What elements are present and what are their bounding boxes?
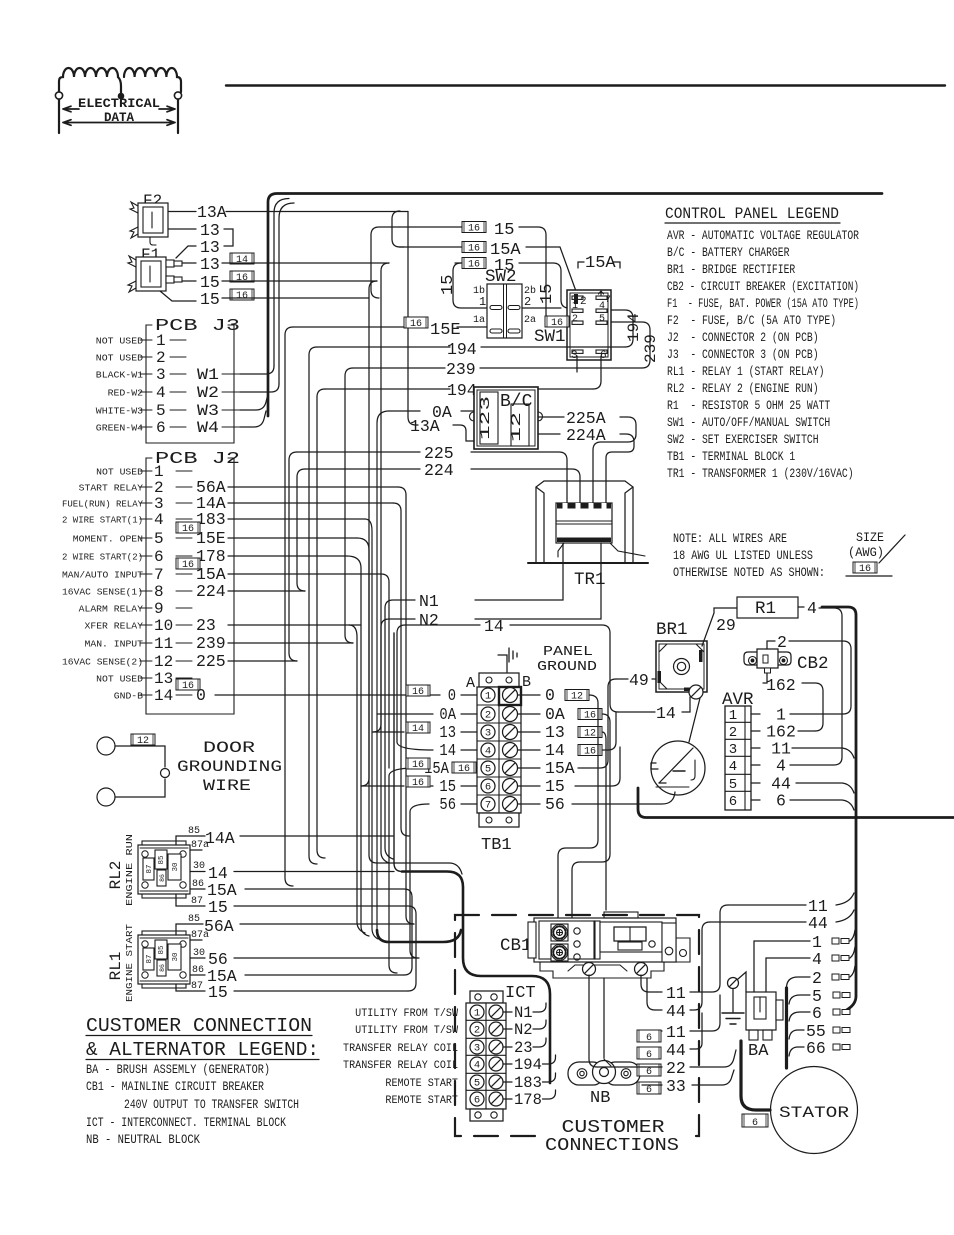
wire 15 row	[462, 222, 486, 235]
svg-text:16: 16	[236, 291, 248, 302]
svg-text:F1 - FUSE, BAT. POWER (15A AT: F1 - FUSE, BAT. POWER (15A ATO TYPE)	[667, 296, 859, 311]
svg-text:2: 2	[729, 725, 737, 741]
svg-text:J2 - CONNECTOR 2 (ON PCB): J2 - CONNECTOR 2 (ON PCB)	[667, 330, 819, 345]
switch SW2	[473, 267, 536, 338]
svg-text:7: 7	[605, 295, 611, 306]
svg-text:3: 3	[156, 366, 166, 384]
svg-text:0A: 0A	[439, 705, 456, 724]
wire 13A to B/C	[416, 424, 418, 426]
svg-text:15E: 15E	[430, 321, 461, 340]
svg-text:4: 4	[154, 511, 164, 529]
svg-text:2 WIRE START(1): 2 WIRE START(1)	[62, 515, 143, 526]
wire 13 [14]	[182, 262, 196, 264]
customer connections dashed box	[455, 915, 699, 1136]
svg-text:DOOR: DOOR	[203, 739, 256, 757]
svg-text:RL2: RL2	[107, 861, 125, 890]
svg-text:N1: N1	[514, 1004, 533, 1022]
BA top leads	[753, 941, 755, 992]
svg-text:N2: N2	[514, 1021, 533, 1039]
AVR wires	[790, 713, 843, 715]
svg-text:START RELAY: START RELAY	[79, 483, 144, 494]
svg-text:5: 5	[154, 530, 164, 548]
svg-text:0: 0	[448, 686, 456, 705]
svg-text:16VAC SENSE(2): 16VAC SENSE(2)	[62, 657, 143, 668]
circuit breaker CB2	[744, 649, 829, 674]
svg-text:REMOTE START: REMOTE START	[385, 1095, 458, 1107]
wire 22 row [6]	[637, 1064, 661, 1078]
svg-text:PANEL: PANEL	[543, 644, 593, 660]
svg-text:12: 12	[137, 736, 149, 747]
heavy wires to stator	[741, 1041, 770, 1110]
wire 194 verticals to south	[309, 347, 317, 864]
svg-text:14: 14	[656, 704, 676, 723]
wire rows 194/239/194	[317, 346, 450, 348]
svg-text:44: 44	[666, 1002, 686, 1021]
svg-text:13A: 13A	[197, 203, 227, 222]
svg-text:16: 16	[412, 687, 424, 698]
svg-text:TRANSFER RELAY COIL: TRANSFER RELAY COIL	[343, 1043, 458, 1055]
svg-text:12: 12	[571, 692, 583, 703]
svg-text:16: 16	[859, 564, 871, 575]
svg-text:178: 178	[514, 1091, 542, 1109]
wires SW1 right: 194/239	[611, 310, 633, 347]
svg-text:12: 12	[509, 412, 525, 442]
wires from J2 to harness	[228, 486, 398, 488]
svg-text:NOT USED: NOT USED	[96, 336, 143, 347]
wire 14 row	[405, 624, 480, 626]
svg-text:30: 30	[193, 948, 205, 959]
svg-text:15A: 15A	[545, 759, 575, 778]
wire 44 row [6]	[637, 1047, 661, 1061]
svg-text:4: 4	[776, 757, 786, 776]
wire 13A from F2	[168, 211, 196, 213]
svg-text:44: 44	[808, 914, 828, 933]
ICT right wires	[503, 1011, 512, 1013]
svg-text:0A: 0A	[545, 705, 565, 724]
panel ground symbol	[498, 655, 507, 672]
svg-text:2: 2	[485, 710, 491, 722]
15A bracket over SW1	[578, 262, 584, 268]
svg-text:ENGINE RUN: ENGINE RUN	[124, 834, 135, 906]
svg-text:6: 6	[474, 1095, 480, 1107]
svg-text:6: 6	[154, 548, 164, 566]
svg-text:(AWG): (AWG)	[848, 546, 884, 560]
svg-text:AVR - AUTOMATIC VOLTAGE REGULA: AVR - AUTOMATIC VOLTAGE REGULATOR	[667, 228, 859, 243]
svg-text:GROUND: GROUND	[537, 659, 597, 675]
svg-text:16: 16	[458, 764, 470, 775]
svg-text:NOTE: ALL WIRES ARE: NOTE: ALL WIRES ARE	[673, 532, 787, 546]
wire 14 thick elbow	[394, 633, 402, 872]
wire 15 [16]	[182, 280, 196, 282]
svg-text:16: 16	[468, 260, 480, 271]
svg-text:WHITE-W3: WHITE-W3	[96, 406, 143, 417]
wires N1/N2	[475, 543, 563, 600]
svg-text:F2 - FUSE, B/C (5A ATO TYPE): F2 - FUSE, B/C (5A ATO TYPE)	[667, 313, 836, 328]
svg-text:A: A	[466, 675, 475, 692]
svg-text:1: 1	[156, 332, 166, 350]
heavy field wire	[638, 788, 954, 818]
fuse F2	[130, 192, 168, 245]
svg-text:3: 3	[474, 1043, 480, 1055]
svg-text:194: 194	[447, 381, 477, 400]
svg-text:1: 1	[729, 708, 737, 724]
svg-text:TB1: TB1	[481, 836, 512, 855]
harness to customer area	[377, 930, 461, 942]
svg-text:4: 4	[812, 950, 822, 969]
wire 15E row	[404, 317, 428, 330]
note text	[673, 531, 905, 580]
svg-text:2: 2	[572, 314, 578, 325]
svg-text:123: 123	[478, 396, 494, 440]
svg-text:6: 6	[729, 794, 737, 810]
svg-text:0: 0	[196, 686, 206, 705]
svg-text:CB1: CB1	[500, 936, 532, 956]
svg-text:CONTROL PANEL LEGEND: CONTROL PANEL LEGEND	[665, 205, 839, 223]
svg-text:B/C - BATTERY CHARGER: B/C - BATTERY CHARGER	[667, 245, 790, 260]
svg-text:TR1 - TRANSFORMER 1 (230V/16VA: TR1 - TRANSFORMER 1 (230V/16VAC)	[667, 466, 854, 481]
svg-text:GROUNDING: GROUNDING	[177, 758, 282, 776]
svg-text:BA - BRUSH ASSEMLY (GENERATOR: BA - BRUSH ASSEMLY (GENERATOR)	[86, 1063, 270, 1077]
relay RL1 (ENGINE START)	[138, 931, 190, 988]
svg-text:13: 13	[545, 723, 565, 742]
svg-text:SW1: SW1	[534, 327, 566, 347]
wire: main harness top run	[268, 194, 882, 417]
svg-text:RL1 - RELAY 1 (START RELAY): RL1 - RELAY 1 (START RELAY)	[667, 364, 824, 379]
svg-text:4: 4	[474, 1060, 480, 1072]
svg-text:ENGINE START: ENGINE START	[124, 924, 135, 1002]
svg-text:14: 14	[484, 617, 504, 636]
svg-text:RL2 - RELAY 2 (ENGINE RUN): RL2 - RELAY 2 (ENGINE RUN)	[667, 381, 819, 396]
svg-text:11: 11	[154, 635, 173, 653]
connector J2 (PCB)	[62, 450, 240, 714]
harness bundle verticals	[373, 263, 389, 732]
svg-text:224: 224	[196, 582, 226, 601]
svg-text:56: 56	[545, 795, 565, 814]
svg-text:4: 4	[729, 759, 737, 775]
wire 44 row (cb1)	[647, 978, 655, 1010]
svg-text:85: 85	[158, 855, 166, 865]
svg-text:49: 49	[629, 671, 649, 690]
svg-text:16: 16	[236, 273, 248, 284]
wire 15E main vertical	[285, 327, 293, 886]
wire 15 row lower	[462, 258, 486, 271]
door grounding wire	[97, 734, 282, 806]
svg-text:4: 4	[807, 599, 817, 618]
svg-text:87: 87	[191, 896, 203, 907]
svg-text:2: 2	[474, 1025, 480, 1037]
svg-text:3: 3	[485, 728, 491, 740]
section logo: transformer coils ELECTRICAL DATA	[55, 68, 181, 133]
wire 162	[763, 673, 767, 683]
svg-text:15: 15	[494, 221, 514, 240]
svg-text:TRANSFER RELAY COIL: TRANSFER RELAY COIL	[343, 1060, 458, 1072]
svg-text:BR1 - BRIDGE RECTIFIER: BR1 - BRIDGE RECTIFIER	[667, 262, 795, 277]
svg-text:14: 14	[545, 741, 565, 760]
svg-text:PCB J3: PCB J3	[155, 317, 240, 336]
svg-text:33: 33	[666, 1077, 686, 1096]
svg-text:1: 1	[474, 1008, 480, 1020]
svg-text:WIRE: WIRE	[203, 777, 251, 795]
svg-text:87: 87	[146, 954, 154, 963]
svg-text:30: 30	[193, 861, 205, 872]
connector J3 (PCB)	[96, 317, 240, 443]
svg-text:ICT - INTERCONNECT. TERMINAL B: ICT - INTERCONNECT. TERMINAL BLOCK	[86, 1116, 286, 1130]
svg-text:30: 30	[172, 952, 180, 962]
svg-text:12: 12	[584, 729, 596, 740]
fuse F1	[128, 246, 182, 292]
svg-text:13A: 13A	[410, 417, 440, 436]
svg-text:16: 16	[182, 560, 194, 571]
svg-text:B/C: B/C	[500, 392, 533, 412]
svg-text:194: 194	[625, 313, 643, 342]
svg-text:29: 29	[716, 616, 736, 635]
svg-text:SW1 - AUTO/OFF/MANUAL SWITCH: SW1 - AUTO/OFF/MANUAL SWITCH	[667, 415, 830, 430]
svg-text:CB2 - CIRCUIT BREAKER (EXCITAT: CB2 - CIRCUIT BREAKER (EXCITATION)	[667, 279, 859, 294]
svg-text:5: 5	[156, 402, 166, 420]
svg-text:5: 5	[485, 764, 491, 776]
svg-text:4: 4	[156, 384, 166, 402]
svg-text:86: 86	[159, 964, 166, 972]
svg-text:CB2: CB2	[797, 654, 829, 674]
svg-text:162: 162	[766, 676, 796, 695]
wire 0A	[389, 410, 420, 412]
neutral block NB	[568, 1059, 640, 1108]
svg-text:PCB J2: PCB J2	[155, 450, 240, 469]
svg-text:16: 16	[468, 224, 480, 235]
svg-text:1a: 1a	[473, 315, 485, 326]
interconnect terminal ICT	[466, 984, 536, 1121]
svg-text:56: 56	[439, 795, 456, 814]
svg-text:2: 2	[812, 969, 822, 988]
svg-text:ELECTRICAL: ELECTRICAL	[78, 97, 160, 111]
svg-text:UTILITY FROM T/SW: UTILITY FROM T/SW	[355, 1008, 458, 1020]
svg-text:N1: N1	[419, 592, 439, 611]
svg-text:NB - NEUTRAL BLOCK: NB - NEUTRAL BLOCK	[86, 1133, 200, 1147]
svg-text:239: 239	[642, 334, 660, 363]
svg-text:85: 85	[158, 945, 166, 955]
svg-text:14: 14	[412, 724, 424, 735]
svg-text:13: 13	[154, 670, 173, 688]
svg-text:CB1 - MAINLINE CIRCUIT BREAKER: CB1 - MAINLINE CIRCUIT BREAKER	[86, 1080, 264, 1094]
wire: 13A top run	[226, 211, 408, 213]
svg-text:BA: BA	[748, 1042, 769, 1061]
svg-text:XFER RELAY: XFER RELAY	[85, 621, 144, 632]
svg-text:87: 87	[191, 981, 203, 992]
svg-text:240V OUTPUT TO TRANSFER SWITCH: 240V OUTPUT TO TRANSFER SWITCH	[124, 1098, 299, 1112]
svg-text:MAN/AUTO INPUT: MAN/AUTO INPUT	[62, 570, 143, 581]
svg-text:B: B	[522, 674, 531, 691]
svg-text:3: 3	[729, 742, 737, 758]
svg-text:TB1 - TERMINAL BLOCK 1: TB1 - TERMINAL BLOCK 1	[667, 449, 795, 464]
svg-text:14: 14	[236, 255, 248, 266]
svg-text:6: 6	[485, 782, 491, 794]
svg-text:87: 87	[146, 864, 154, 873]
svg-text:15E: 15E	[196, 529, 226, 548]
svg-text:86: 86	[192, 965, 204, 976]
svg-text:87a: 87a	[191, 930, 209, 941]
svg-text:NOT USED: NOT USED	[96, 353, 143, 364]
svg-text:BLACK-W1: BLACK-W1	[96, 370, 143, 381]
svg-text:16: 16	[410, 319, 422, 330]
svg-text:N2: N2	[419, 611, 439, 630]
relay RL2 (ENGINE RUN)	[138, 841, 190, 898]
wire 33 row [6]	[637, 1082, 661, 1096]
TB1 right feeders	[558, 695, 598, 920]
svg-text:& ALTERNATOR LEGEND:: & ALTERNATOR LEGEND:	[86, 1039, 319, 1061]
svg-text:224: 224	[424, 461, 454, 480]
svg-text:16: 16	[412, 760, 424, 771]
svg-text:194: 194	[447, 340, 477, 359]
switch SW1	[534, 290, 611, 362]
svg-text:6: 6	[752, 1118, 758, 1129]
svg-text:ALARM RELAY: ALARM RELAY	[79, 604, 144, 615]
resistor R1	[737, 597, 798, 618]
TB1 left feeders	[397, 625, 433, 750]
svg-text:86: 86	[159, 874, 166, 882]
svg-text:CONNECTIONS: CONNECTIONS	[545, 1136, 679, 1156]
svg-text:4: 4	[485, 746, 491, 758]
svg-text:7: 7	[154, 566, 164, 584]
svg-text:11: 11	[666, 1023, 686, 1042]
svg-text:16: 16	[551, 318, 563, 329]
svg-text:12: 12	[154, 653, 173, 671]
customer connections title	[545, 1115, 685, 1155]
wire rows 225/224	[297, 451, 420, 453]
svg-text:RED-W2: RED-W2	[108, 388, 144, 399]
svg-text:44: 44	[666, 1041, 686, 1060]
svg-text:2 WIRE START(2): 2 WIRE START(2)	[62, 552, 143, 563]
svg-text:CUSTOMER CONNECTION: CUSTOMER CONNECTION	[86, 1015, 312, 1037]
CB1 to NB / rows	[589, 975, 597, 1067]
svg-text:R1 - RESISTOR 5 OHM 25 WATT: R1 - RESISTOR 5 OHM 25 WATT	[667, 398, 830, 413]
svg-text:6: 6	[646, 1033, 652, 1044]
svg-text:2: 2	[524, 295, 531, 309]
RL2 pin wires	[176, 836, 205, 845]
svg-text:OTHERWISE NOTED AS SHOWN:: OTHERWISE NOTED AS SHOWN:	[673, 566, 825, 580]
svg-text:16VAC SENSE(1): 16VAC SENSE(1)	[62, 587, 143, 598]
svg-text:15A: 15A	[585, 254, 616, 273]
svg-text:194: 194	[514, 1056, 542, 1074]
wire: W-bundle verticals	[274, 199, 289, 367]
wire 11 row [6]	[637, 1030, 661, 1044]
svg-text:14: 14	[439, 741, 456, 760]
svg-text:15: 15	[439, 777, 456, 796]
svg-text:183: 183	[514, 1074, 542, 1092]
svg-text:85: 85	[188, 914, 200, 925]
control panel legend	[665, 205, 859, 481]
svg-text:SIZE: SIZE	[856, 531, 884, 545]
svg-text:15: 15	[538, 284, 557, 304]
svg-text:RL1: RL1	[107, 952, 125, 981]
svg-text:13: 13	[200, 255, 220, 274]
svg-text:16: 16	[412, 778, 424, 789]
svg-text:6: 6	[156, 419, 166, 437]
svg-text:239: 239	[196, 634, 226, 653]
svg-text:SW2 - SET EXERCISER SWITCH: SW2 - SET EXERCISER SWITCH	[667, 432, 819, 447]
transformer TR1	[528, 481, 648, 590]
svg-text:2: 2	[156, 349, 166, 367]
svg-text:CUSTOMER: CUSTOMER	[562, 1118, 665, 1138]
svg-text:MOMENT. OPEN: MOMENT. OPEN	[73, 534, 143, 545]
svg-text:FUEL(RUN) RELAY: FUEL(RUN) RELAY	[62, 499, 143, 510]
svg-text:85: 85	[188, 826, 200, 837]
svg-text:MAN. INPUT: MAN. INPUT	[85, 639, 144, 650]
svg-text:UTILITY FROM T/SW: UTILITY FROM T/SW	[355, 1025, 458, 1037]
svg-text:23: 23	[514, 1039, 533, 1057]
svg-text:REMOTE START: REMOTE START	[385, 1078, 458, 1090]
svg-text:W4: W4	[197, 419, 219, 437]
bridge rectifier BR1	[656, 620, 707, 699]
svg-text:225: 225	[196, 652, 226, 671]
wires 225A/224A	[538, 416, 564, 418]
detail bubble	[651, 741, 705, 795]
svg-text:15: 15	[439, 275, 458, 295]
svg-text:0: 0	[545, 686, 555, 705]
voltage regulator AVR	[722, 690, 796, 811]
svg-text:6: 6	[812, 1004, 822, 1023]
customer connection legend	[86, 1015, 319, 1147]
svg-text:R1: R1	[755, 599, 776, 619]
svg-text:6: 6	[646, 1085, 652, 1096]
svg-text:W3: W3	[197, 402, 219, 420]
svg-text:1: 1	[485, 691, 491, 703]
svg-text:W1: W1	[197, 366, 219, 384]
svg-text:13: 13	[439, 723, 456, 742]
wire 14 (BR1)	[618, 711, 655, 713]
svg-text:10: 10	[154, 617, 173, 635]
wire 15 [16] lower	[160, 291, 196, 301]
wire 11 row (cb1)	[649, 991, 662, 993]
svg-text:22: 22	[666, 1059, 686, 1078]
svg-text:14: 14	[154, 687, 173, 705]
svg-text:NB: NB	[590, 1089, 610, 1108]
svg-text:BR1: BR1	[656, 620, 688, 640]
svg-text:5: 5	[599, 314, 605, 325]
svg-text:239: 239	[446, 360, 476, 379]
svg-text:224A: 224A	[566, 426, 606, 445]
svg-text:16: 16	[468, 244, 480, 255]
svg-text:9: 9	[154, 600, 164, 618]
svg-text:16: 16	[584, 747, 596, 758]
svg-text:5: 5	[729, 777, 737, 793]
svg-text:14A: 14A	[205, 829, 235, 848]
svg-text:7: 7	[485, 800, 491, 812]
svg-text:2: 2	[777, 633, 787, 652]
svg-text:NOT USED: NOT USED	[96, 467, 143, 478]
svg-text:87a: 87a	[191, 840, 209, 851]
RL1 pin wires	[176, 924, 203, 935]
svg-text:16: 16	[182, 524, 194, 535]
svg-text:GND-B: GND-B	[114, 691, 143, 702]
wire 13 / bracket	[168, 228, 196, 230]
wire 15A row	[462, 242, 486, 255]
brush assembly BA	[746, 992, 783, 1061]
svg-text:6: 6	[776, 792, 786, 811]
svg-text:11: 11	[666, 984, 686, 1003]
svg-text:W2: W2	[197, 384, 219, 402]
svg-text:16: 16	[182, 681, 194, 692]
TB1 right wires	[518, 694, 540, 696]
terminal block TB1	[466, 673, 531, 855]
svg-text:15: 15	[200, 290, 220, 309]
svg-text:66: 66	[806, 1039, 826, 1058]
svg-text:J3 - CONNECTOR 3 (ON PCB): J3 - CONNECTOR 3 (ON PCB)	[667, 347, 819, 362]
main breaker CB1	[500, 912, 690, 978]
svg-text:NOT USED: NOT USED	[96, 674, 143, 685]
svg-text:2a: 2a	[524, 315, 536, 326]
svg-text:5: 5	[474, 1078, 480, 1090]
svg-text:1: 1	[479, 295, 486, 309]
